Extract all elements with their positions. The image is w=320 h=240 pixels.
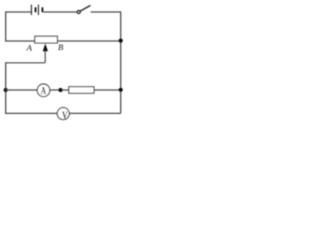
svg-text:V: V xyxy=(62,109,68,120)
svg-text:A: A xyxy=(26,42,33,52)
wire ammeter to resistor xyxy=(50,89,69,91)
voltmeter circle xyxy=(57,108,69,120)
wire slider row horizontal xyxy=(6,62,45,64)
switch lever arm xyxy=(80,5,90,11)
node junction dot right ammeter row xyxy=(119,88,123,92)
rheostat body xyxy=(35,36,58,43)
wire bottom row left xyxy=(6,112,58,115)
svg-text:B: B xyxy=(58,42,64,52)
battery short thick plate 2 xyxy=(42,7,44,12)
battery long plate 2 xyxy=(37,5,39,15)
wire top-left horizontal xyxy=(6,11,32,13)
wire rheostat row left xyxy=(6,40,35,42)
wire voltmeter to bottom-right corner xyxy=(69,112,121,114)
rheostat slider arrowhead xyxy=(43,44,48,52)
battery short thick plate 1 xyxy=(35,7,37,12)
wire left vertical lower xyxy=(5,62,7,113)
battery long plate 1 xyxy=(30,5,32,15)
wire switch to top-right corner xyxy=(91,11,121,13)
switch terminal circle xyxy=(77,10,80,13)
ammeter label A xyxy=(41,85,47,97)
resistor body xyxy=(69,87,94,94)
rheostat slider stem xyxy=(44,51,45,63)
wire left vertical upper xyxy=(5,11,7,41)
voltmeter label V xyxy=(62,109,68,120)
wire battery to switch xyxy=(43,11,77,13)
node junction dot right of rheostat row xyxy=(119,39,123,43)
node terminal dot mid row xyxy=(58,88,62,92)
wire ammeter row left xyxy=(6,89,37,91)
wire resistor to right vertical xyxy=(94,89,121,91)
wire rheostat B end to right vertical xyxy=(57,40,120,42)
wire right vertical xyxy=(120,11,122,113)
svg-text:A: A xyxy=(41,85,47,97)
ammeter circle xyxy=(37,84,50,97)
node junction dot left ammeter row xyxy=(4,88,8,92)
